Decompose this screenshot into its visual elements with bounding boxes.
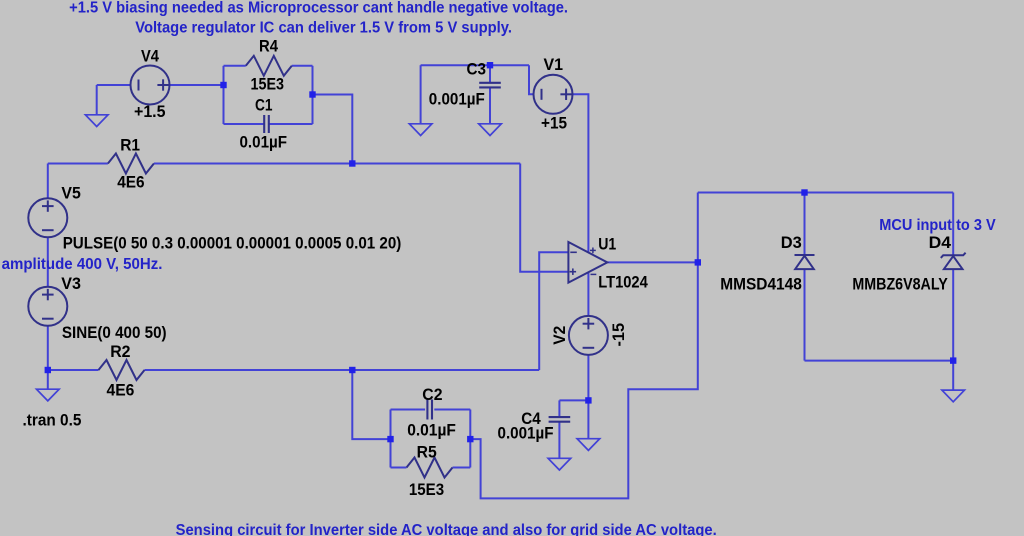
svg-text:0.01µF: 0.01µF: [240, 134, 288, 152]
wire C1 right rail: [269, 123, 313, 125]
wire V3 bottom lead: [47, 326, 49, 370]
wire C3 bottom lead: [489, 87, 491, 123]
wire C3 top lead: [489, 65, 491, 83]
wire V4 right lead to node: [169, 84, 223, 86]
wire down to R5C2 block: [352, 370, 390, 439]
wire V2 node to ground: [587, 400, 589, 438]
node junction V4-block: [220, 82, 226, 88]
wire R5 left rail: [391, 467, 407, 469]
node junction D4 bottom: [950, 357, 956, 363]
svg-text:+15: +15: [541, 115, 567, 133]
svg-text:MMBZ6V8ALY: MMBZ6V8ALY: [852, 276, 948, 294]
svg-text:U1: U1: [598, 235, 616, 253]
svg-text:PULSE(0 50 0.3 0.00001 0.00001: PULSE(0 50 0.3 0.00001 0.00001 0.0005 0.…: [63, 234, 402, 252]
wire D4 anode lead: [952, 269, 954, 361]
wire R1 to op-amp branch: [154, 163, 520, 165]
svg-text:C2: C2: [422, 386, 442, 404]
svg-text:4E6: 4E6: [117, 174, 144, 192]
wire C1 left rail: [224, 123, 265, 125]
svg-text:R4: R4: [259, 37, 278, 55]
resistor R4: [246, 56, 292, 76]
svg-text:MCU input to 3 V: MCU input to 3 V: [879, 217, 996, 234]
svg-text:amplitude 400 V, 50Hz.: amplitude 400 V, 50Hz.: [2, 256, 163, 273]
svg-text:MMSD4148: MMSD4148: [720, 276, 802, 294]
wire V5 to V3: [47, 237, 49, 286]
svg-text:0.001µF: 0.001µF: [429, 90, 485, 108]
wire D3 cathode lead: [804, 193, 806, 256]
svg-text:-15: -15: [610, 323, 628, 347]
svg-text:C3: C3: [467, 61, 487, 79]
node junction V3-R2-ground: [45, 367, 51, 373]
svg-text:4E6: 4E6: [107, 382, 135, 400]
svg-text:V5: V5: [61, 185, 80, 203]
ground at C4: [548, 458, 571, 470]
wire R4 left rail: [224, 65, 246, 67]
node junction R5C2 left: [387, 436, 393, 442]
wire R5 right rail: [453, 467, 471, 469]
svg-text:15E3: 15E3: [409, 481, 444, 499]
voltage source V1: [534, 75, 573, 114]
capacitor C1: [264, 115, 269, 133]
wire output top rail: [698, 192, 953, 194]
node junction R2 line-feedback: [349, 367, 355, 373]
ground at C3: [479, 124, 502, 136]
voltage source V5: [28, 198, 67, 237]
wire R5C2 block right side: [469, 410, 471, 468]
wire R4C1 block right side: [312, 66, 314, 124]
capacitor C3: [479, 83, 501, 88]
wire C3 top rail: [421, 64, 529, 66]
wire V5 top lead: [47, 164, 49, 199]
op-amp U1: [568, 242, 607, 283]
svg-text:+1.5 V biasing needed as Micro: +1.5 V biasing needed as Microprocessor …: [69, 0, 568, 16]
wire to op-amp non-inverting input: [520, 164, 568, 272]
svg-text:LT1024: LT1024: [598, 274, 648, 292]
wire V2 bottom lead: [587, 355, 589, 401]
svg-text:V1: V1: [544, 56, 564, 74]
wire C4 top lead: [558, 400, 560, 417]
voltage source V4: [131, 66, 170, 105]
wire R5C2 block left side: [390, 410, 392, 468]
svg-text:Sensing circuit for Inverter s: Sensing circuit for Inverter side AC vol…: [176, 522, 717, 536]
node junction C3 rail: [487, 62, 493, 68]
wire R4C1 block left side: [223, 66, 225, 124]
ground at V2: [577, 439, 600, 451]
capacitor C2: [427, 400, 432, 420]
diode D3: [795, 255, 815, 269]
ground at V4: [85, 115, 108, 127]
wire left drop to ground: [420, 65, 422, 124]
svg-text:V2: V2: [551, 326, 569, 345]
resistor R2: [99, 360, 145, 380]
wire R4 right rail: [292, 65, 313, 67]
wire node to R2: [48, 369, 99, 371]
svg-text:SINE(0 400 50): SINE(0 400 50): [62, 324, 167, 342]
ground at V3 node: [37, 389, 60, 401]
resistor R5: [407, 458, 453, 478]
svg-text:R2: R2: [110, 343, 130, 361]
wire node to ground: [47, 370, 49, 389]
svg-text:D3: D3: [781, 234, 802, 252]
wire op-amp output: [607, 261, 698, 263]
wire to ground right: [952, 361, 954, 391]
wire C2 right rail: [434, 409, 470, 411]
resistor R1: [108, 154, 154, 174]
node junction op-amp output: [695, 259, 701, 265]
node junction V2-C4-ground: [585, 397, 591, 403]
svg-text:0.01µF: 0.01µF: [407, 422, 456, 440]
voltage source V2: [569, 316, 608, 355]
svg-text:+1.5: +1.5: [134, 103, 166, 121]
capacitor C4: [549, 417, 571, 422]
svg-text:R5: R5: [417, 444, 437, 462]
wire V1 left lead: [529, 65, 534, 94]
wire feedback loop to output node: [470, 193, 698, 499]
wire diode bottom rail: [805, 360, 954, 362]
svg-text:Voltage regulator IC can deliv: Voltage regulator IC can deliver 1.5 V f…: [135, 20, 512, 37]
svg-text:.tran 0.5: .tran 0.5: [23, 412, 82, 430]
svg-text:V3: V3: [61, 275, 81, 293]
ground left of C3: [409, 124, 432, 136]
node junction D3 top: [801, 189, 807, 195]
svg-text:15E3: 15E3: [251, 75, 285, 93]
voltage source V3: [28, 287, 67, 326]
wire V4 to ground: [96, 85, 98, 116]
wire C2 left rail: [391, 409, 426, 411]
wire V5 to R1: [48, 163, 108, 165]
node junction bias-main line: [349, 160, 355, 166]
wire V1 to op-amp V+ pin: [573, 94, 589, 252]
wire V2 node to C4: [559, 399, 588, 401]
svg-text:V4: V4: [141, 48, 159, 66]
svg-text:0.001µF: 0.001µF: [498, 425, 554, 443]
wire op-amp V- pin to V2: [587, 272, 589, 316]
wire block output down to main line: [313, 95, 353, 164]
ground at D4: [942, 390, 965, 402]
wire C4 bottom lead: [558, 422, 560, 459]
zener diode D4: [941, 253, 966, 269]
node junction block output: [309, 91, 315, 97]
wire R2 to feedback node: [145, 369, 540, 371]
wire D3 anode lead: [804, 269, 806, 361]
wire V4 left lead: [97, 84, 131, 86]
node junction R5C2 right: [467, 436, 473, 442]
svg-text:D4: D4: [929, 234, 951, 252]
wire D4 cathode lead: [952, 193, 954, 256]
wire to op-amp inverting input: [539, 252, 568, 370]
svg-text:R1: R1: [120, 136, 140, 154]
svg-text:C1: C1: [255, 97, 273, 115]
